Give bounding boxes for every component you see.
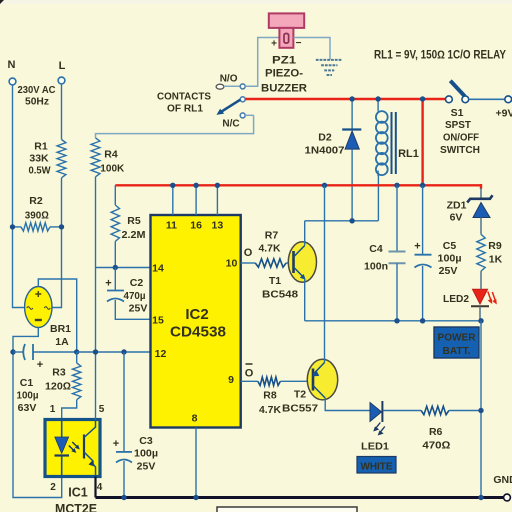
svg-text:WHITE: WHITE [361,460,393,472]
node rail pin13 [215,183,220,188]
svg-text:100n: 100n [364,261,388,273]
svg-text:C5: C5 [443,240,457,252]
svg-text:−: − [296,38,302,49]
svg-text:ON/OFF: ON/OFF [443,132,480,144]
svg-text:BR1: BR1 [50,323,71,335]
node coil top [375,96,380,101]
wire supply rail to pin 14 [96,267,151,269]
capacitor C2 [114,268,116,291]
svg-text:33K: 33K [29,153,49,165]
svg-text:L: L [59,60,66,72]
svg-text:+: + [271,39,277,50]
svg-text:50Hz: 50Hz [25,96,49,108]
svg-text:POWER: POWER [438,332,476,344]
wire red vertical link [421,99,423,185]
svg-text:C3: C3 [139,435,153,447]
switch S1 [446,96,453,103]
node R2-L junction [59,224,64,229]
svg-text:4.7K: 4.7K [259,243,281,255]
wire red bottom rail [115,184,481,186]
resistor R2 [13,226,22,228]
wire T2 emitter up to rail [324,185,326,362]
svg-text:S1: S1 [451,107,464,119]
svg-text:100µ: 100µ [17,390,39,402]
svg-text:11: 11 [166,220,177,232]
wire ground bus (dark) [94,477,96,498]
svg-text:SPST: SPST [445,119,472,131]
node D2 anode junction [349,218,354,223]
wire T1 collector horizontal [305,220,379,222]
piezo buzzer PZ1 [269,13,304,28]
capacitor C5 [422,185,424,254]
svg-text:BC548: BC548 [262,289,298,301]
wire N/O to buzzer [224,85,240,87]
relay N/O contact [216,84,224,89]
node pin8 ground [193,495,198,500]
svg-text:470µ: 470µ [124,290,146,302]
wire pin 12 line [77,351,151,353]
svg-text:PIEZO-: PIEZO- [265,68,303,80]
resistor R7 [255,259,286,267]
svg-text:CD4538: CD4538 [170,324,226,341]
svg-text:T2: T2 [294,389,306,401]
wire battery vertical [480,321,482,498]
LED LED2 red [473,289,488,304]
svg-text:14: 14 [152,263,164,275]
wire pin9 to R8 [241,380,258,382]
svg-text:1: 1 [50,404,56,415]
svg-text:13: 13 [212,220,224,232]
capacitor C4 [396,185,398,251]
node rail pin16 [193,183,198,188]
terminal L [58,77,65,84]
label O-bar output pin9 [246,363,253,365]
svg-text:CONTACTS: CONTACTS [157,91,211,103]
svg-text:2.2M: 2.2M [122,229,146,241]
svg-text:2: 2 [50,482,56,493]
wire red top rail [245,98,445,100]
svg-text:5: 5 [99,404,105,415]
node pin12/R4 junction [93,349,98,354]
node BR1+/C1/R3 junction [74,349,79,354]
wire emitter rail to LED2 [305,320,481,322]
svg-text:IC1: IC1 [68,486,88,500]
wire LED1 to R6 [383,410,421,412]
relay common contact [240,97,245,102]
svg-text:15: 15 [152,315,164,327]
svg-text:RL1 = 9V, 150Ω 1C/O RELAY: RL1 = 9V, 150Ω 1C/O RELAY [374,50,506,62]
ground symbol [316,59,342,61]
svg-text:T1: T1 [269,275,281,287]
svg-text:BC557: BC557 [282,403,318,415]
op-amp IC2 CD4538 box [151,215,241,428]
wire IC2 pin11 to rail [172,185,174,215]
node C5 bottom [420,318,425,323]
relay N/C contact [240,113,245,118]
svg-text:RL1: RL1 [398,148,419,160]
LED2 arrows [488,292,491,301]
wire S1 to +9V [469,98,505,100]
resistor R8 [258,377,281,385]
wire N vertical [13,85,26,308]
svg-text:C2: C2 [130,277,144,289]
svg-text:+: + [113,438,119,450]
svg-text:C1: C1 [20,377,34,389]
label POWER BATT tag [434,327,479,358]
svg-text:4.7K: 4.7K [259,404,281,416]
svg-text:8: 8 [192,413,198,425]
resistor R5 [114,185,116,205]
wire coil bottom to T1 collector line [377,174,379,221]
svg-text:SWITCH: SWITCH [440,144,480,156]
svg-text:GND: GND [493,474,512,486]
node rail C5 [420,183,425,188]
wire L below R1 to bridge [52,178,62,308]
corner printing mark [0,0,4,4]
svg-text:R4: R4 [104,149,118,161]
svg-text:PZ1: PZ1 [272,55,296,67]
svg-text:R9: R9 [488,240,502,252]
wire N/C line to R4 [96,115,254,138]
resistor R1 [57,140,66,178]
op-amp IC1 MCT2E optocoupler box [45,420,100,477]
svg-text:25V: 25V [129,303,148,315]
transistor T2 [307,359,337,400]
svg-text:BATT.: BATT. [443,345,471,357]
svg-text:R2: R2 [29,195,43,207]
wire R7 to T1 base [286,262,293,264]
node rail T2 emitter [322,183,327,188]
svg-text:MCT2E: MCT2E [55,502,97,512]
node C4 bottom [394,318,399,323]
terminal +9V [505,96,512,103]
wire T2 collector to LED1 [325,398,370,411]
svg-text:R8: R8 [263,390,277,402]
node pin12/C3 junction [121,349,126,354]
relay switch arm with arrow [221,100,241,113]
bridge rectifier BR1 [25,287,52,328]
node LED2 bottom junction [478,318,483,323]
LED1 light arrows [375,423,380,429]
relay coil RL1 [377,99,379,112]
node R2-N junction [10,224,15,229]
svg-text:N/C: N/C [222,118,239,129]
wire R6 to battery line [449,410,481,412]
terminal GND [504,494,511,501]
diode D2 [351,99,353,129]
node battery ground [478,495,483,500]
svg-text:+9V: +9V [496,108,512,120]
wire R4 down to IC1 pin5 [95,177,97,420]
wire IC2 pin13 to rail [216,185,218,215]
svg-text:100K: 100K [100,163,124,175]
wire IC2 pin8 to ground [195,428,197,498]
label WHITE tag [357,457,396,474]
svg-text:R7: R7 [265,230,279,242]
wire IC2 pin16 to rail [195,185,197,215]
capacitor C3 [123,352,125,452]
resistor R3 [76,352,78,363]
resistor R9 [477,234,485,271]
svg-text:OF RL1: OF RL1 [167,103,203,115]
svg-text:R6: R6 [429,426,443,438]
svg-text:LED1: LED1 [361,441,389,453]
node C1 negative junction [10,349,15,354]
svg-text:+: + [105,278,111,290]
svg-text:470Ω: 470Ω [422,440,450,452]
svg-text:230V AC: 230V AC [18,84,56,96]
svg-text:63V: 63V [18,402,37,414]
svg-text:N/O: N/O [220,74,238,85]
wire red stub to ZD1 [480,184,482,189]
zener ZD1 [480,188,482,199]
wire L to R1 [61,84,63,140]
svg-text:IC2: IC2 [185,306,208,323]
svg-text:LED2: LED2 [443,293,469,305]
svg-text:O: O [244,247,253,259]
svg-text:N: N [8,59,16,71]
resistor R6 [421,406,449,414]
svg-text:R3: R3 [52,367,66,379]
svg-text:1A: 1A [55,336,69,348]
IC1 internal LED [61,420,63,438]
svg-text:0.5W: 0.5W [29,164,51,176]
wire buzzer right to ground [293,38,330,60]
svg-text:C4: C4 [369,243,383,255]
svg-text:BUZZER: BUZZER [261,83,307,95]
node C3 ground [121,495,126,500]
svg-text:+: + [414,241,420,253]
svg-text:4: 4 [97,482,103,493]
wire R3 to IC1 pin1 [62,400,77,420]
svg-text:25V: 25V [439,265,458,277]
resistor R4 [91,138,100,177]
svg-text:1K: 1K [489,254,503,266]
IC1 light arrows [69,446,75,452]
wire R8 to T2 base [280,380,313,382]
svg-text:R1: R1 [34,141,48,153]
wire N/C stub [245,114,253,116]
svg-text:390Ω: 390Ω [25,210,49,222]
svg-text:+: + [37,359,43,371]
svg-text:100µ: 100µ [438,253,462,265]
svg-text:R5: R5 [127,215,141,227]
svg-text:12: 12 [155,348,167,360]
svg-text:16: 16 [190,220,202,232]
caption box bottom [217,507,357,512]
svg-text:O: O [245,368,254,380]
node rail C4 [394,183,399,188]
svg-text:D2: D2 [318,132,332,144]
svg-text:100µ: 100µ [134,448,158,460]
wire BR1 minus output (down, left, down to ground return) [13,328,62,498]
node rail pin11 [170,183,175,188]
IC1 phototransistor [83,435,85,459]
wire LED2 to battery rail [479,306,481,321]
svg-text:10: 10 [226,258,238,270]
wire T1 collector up [304,221,306,246]
node R6 junction [478,408,483,413]
capacitor C1 [13,351,23,353]
transistor T1 [288,242,316,283]
svg-text:120Ω: 120Ω [45,381,71,393]
terminal N [9,78,16,85]
svg-text:6V: 6V [450,212,463,224]
svg-text:9: 9 [228,374,234,386]
svg-text:1N4007: 1N4007 [305,145,345,157]
relay core lines [391,112,393,174]
svg-text:ZD1: ZD1 [447,200,467,212]
node red vertical top [420,96,425,101]
LED LED1 [370,403,382,422]
node R5/C2/pin14 junction [113,265,118,270]
wire pin10 to R7 [241,262,256,264]
wire T1 emitter down [304,279,306,321]
node D2 top [349,96,354,101]
wire BR1 plus output (top, over to right, down) [38,279,76,352]
svg-text:25V: 25V [137,461,156,473]
